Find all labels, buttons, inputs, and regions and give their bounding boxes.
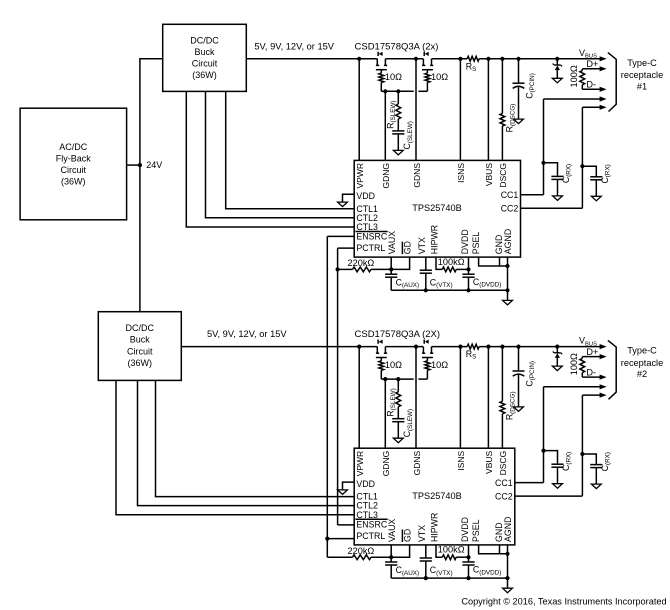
wire CC2 arrow ckt1 bbox=[582, 105, 606, 110]
wire DVDD pin ckt1 bbox=[468, 257, 470, 274]
wire VBUS arrow ckt2 bbox=[600, 344, 607, 349]
capacitor C(AUX) ckt1 bbox=[385, 269, 419, 290]
svg-text:10Ω: 10Ω bbox=[385, 360, 402, 370]
pin label ISNS ckt2 bbox=[456, 450, 466, 470]
wire GD pin ckt1 bbox=[391, 257, 409, 269]
ground main ckt1 bbox=[503, 290, 513, 305]
ground arrow VDD ckt2 bbox=[338, 490, 348, 495]
svg-text:VBUS: VBUS bbox=[484, 450, 494, 473]
svg-text:VAUX: VAUX bbox=[387, 231, 397, 254]
svg-text:Buck: Buck bbox=[130, 335, 151, 345]
resistor RS ckt2 bbox=[466, 344, 479, 361]
svg-text:ISNS: ISNS bbox=[456, 450, 466, 470]
node C(DVDD) ground junction ckt2 bbox=[466, 576, 470, 580]
pin label CTL1 ckt1 bbox=[356, 204, 378, 214]
svg-text:GDNG: GDNG bbox=[381, 451, 391, 477]
capacitor C(PCIN) ckt2 bbox=[513, 347, 536, 407]
wire ENSRC U1 pin stub bbox=[327, 235, 354, 237]
pin label DVDD ckt1 bbox=[460, 229, 470, 254]
capacitor C(DVDD) ckt2 bbox=[462, 562, 501, 578]
svg-text:ENSRC: ENSRC bbox=[356, 232, 387, 242]
pin label CC1 ckt2 bbox=[495, 478, 513, 488]
node AGND strap junction ckt1 bbox=[505, 264, 509, 268]
ground below zener ckt2 bbox=[552, 366, 562, 371]
pin label CC1 ckt1 bbox=[501, 190, 519, 200]
node AGND ground junction ckt1 bbox=[505, 288, 509, 292]
svg-text:GDNS: GDNS bbox=[412, 450, 422, 475]
node PCTRL2 junction bbox=[325, 537, 329, 541]
resistor R(SLEW) ckt1 bbox=[385, 91, 400, 130]
pin label AGND ckt1 bbox=[503, 229, 513, 254]
node VBUS tap ckt1 bbox=[486, 57, 490, 61]
wire 24V rail up to DC/DC buck 1 bbox=[140, 59, 163, 165]
svg-text:CSD17578Q3A (2x): CSD17578Q3A (2x) bbox=[355, 41, 439, 52]
wire VBUS pin ckt2 bbox=[487, 347, 489, 449]
svg-text:DSCG: DSCG bbox=[498, 451, 508, 476]
svg-text:GDNS: GDNS bbox=[412, 163, 422, 188]
wire bottom ground rail ckt1 bbox=[391, 289, 507, 291]
node VAUX junction ckt1 bbox=[389, 267, 393, 271]
transistor Q1 CSD17578Q3A ckt1 bbox=[376, 52, 387, 73]
svg-text:100Ω: 100Ω bbox=[569, 65, 579, 87]
node CC2 RX tap ckt2 bbox=[580, 452, 584, 456]
svg-text:GD: GD bbox=[402, 241, 412, 254]
svg-text:Buck: Buck bbox=[194, 47, 215, 57]
resistor 220k ohm ckt2 bbox=[327, 546, 391, 560]
pin label GD with overline ckt2 bbox=[402, 529, 412, 542]
capacitor C(VTX) ckt1 bbox=[420, 257, 453, 290]
node VBUS tap ckt2 bbox=[486, 345, 490, 349]
wire VPWR pin ckt2 bbox=[358, 347, 360, 449]
label Type-C receptacle #2 ckt2 bbox=[621, 346, 663, 380]
node C(VTX) ground junction ckt2 bbox=[424, 576, 428, 580]
pin label VAUX ckt2 bbox=[387, 519, 397, 542]
pin label CTL2 ckt2 bbox=[356, 501, 378, 511]
pin label DSCG ckt1 bbox=[498, 163, 508, 188]
wire AGND pin ckt1 bbox=[507, 257, 509, 290]
pin label PCTRL ckt2 bbox=[356, 531, 385, 541]
svg-text:DVDD: DVDD bbox=[460, 229, 470, 254]
label 24V bbox=[146, 160, 162, 170]
node GDNG tap ckt2 bbox=[383, 377, 387, 381]
wire PCTRL U2 pin stub bbox=[327, 538, 354, 540]
pin label GDNS ckt1 bbox=[412, 163, 422, 188]
svg-text:D+: D+ bbox=[586, 59, 598, 69]
capacitor C(RX) on CC1 ckt1 bbox=[544, 163, 573, 196]
pin label VBUS ckt2 bbox=[484, 450, 494, 473]
node 220k tap circuit 1 bbox=[336, 267, 340, 271]
svg-text:AGND: AGND bbox=[503, 517, 513, 542]
wire CTL2 from buck 1 to U1 bbox=[206, 91, 355, 217]
wire PSEL to GND strap ckt2 bbox=[479, 545, 508, 554]
pin label VTX ckt1 bbox=[417, 237, 427, 254]
svg-text:Copyright © 2016, Texas Instru: Copyright © 2016, Texas Instruments Inco… bbox=[461, 596, 666, 606]
node 24V junction bbox=[138, 163, 142, 167]
capacitor C(SLEW) ckt1 bbox=[392, 121, 414, 150]
ground below C(PCIN) ckt1 bbox=[514, 119, 524, 124]
capacitor C(RX) on CC2 ckt2 bbox=[582, 452, 611, 484]
svg-text:DC/DC: DC/DC bbox=[126, 323, 155, 333]
wire D- arrow ckt2 bbox=[582, 375, 606, 380]
pin label HIPWR ckt2 bbox=[429, 513, 439, 542]
pin label ENSRC with overline ckt1 bbox=[355, 232, 387, 242]
svg-text:(36W): (36W) bbox=[192, 70, 217, 80]
wire ENSRC U2 pin stub bbox=[338, 524, 355, 526]
svg-text:#2: #2 bbox=[637, 369, 647, 379]
pin label ISNS ckt1 bbox=[456, 163, 466, 183]
svg-text:10Ω: 10Ω bbox=[431, 72, 448, 82]
label D- ckt1 bbox=[586, 80, 596, 90]
pin label DVDD ckt2 bbox=[460, 517, 470, 542]
wire GDNG pin ckt1 bbox=[384, 91, 386, 160]
svg-text:VBUS: VBUS bbox=[484, 163, 494, 186]
svg-text:CC2: CC2 bbox=[501, 204, 519, 214]
resistor 10 ohm gate Q1 ckt1 bbox=[379, 72, 402, 91]
capacitor C(PCIN) ckt1 bbox=[513, 59, 536, 119]
node R_SLEW tap ckt1 bbox=[396, 89, 400, 93]
wire VDD pin ckt1 bbox=[343, 194, 355, 202]
svg-text:Circuit: Circuit bbox=[61, 165, 87, 175]
label CSD17578Q3A (2X) ckt2 bbox=[355, 329, 441, 340]
svg-text:receptacle: receptacle bbox=[621, 358, 663, 368]
node ISNS tap ckt1 bbox=[458, 57, 462, 61]
node DSCG tap ckt1 bbox=[500, 57, 504, 61]
svg-text:5V, 9V, 12V, or 15V: 5V, 9V, 12V, or 15V bbox=[207, 329, 287, 339]
svg-text:CC2: CC2 bbox=[495, 491, 513, 501]
pin label GDNG ckt2 bbox=[381, 451, 391, 477]
node C(PCIN) tap ckt2 bbox=[516, 345, 520, 349]
svg-text:10Ω: 10Ω bbox=[431, 360, 448, 370]
node FET common source ckt2 bbox=[414, 345, 418, 349]
svg-text:PCTRL: PCTRL bbox=[356, 243, 385, 253]
svg-text:DVDD: DVDD bbox=[460, 517, 470, 542]
pin label ENSRC with overline ckt2 bbox=[355, 519, 387, 529]
capacitor C(VTX) ckt2 bbox=[420, 545, 453, 578]
pin label GND ckt1 bbox=[494, 235, 504, 255]
node C(DVDD) ground junction ckt1 bbox=[466, 288, 470, 292]
wire ISNS pin ckt2 bbox=[459, 347, 461, 449]
wire CC2 arrow ckt2 bbox=[582, 393, 606, 398]
op-amp U1 TPS25740B box ckt1 bbox=[354, 160, 520, 257]
resistor 10 ohm gate Q2 ckt1 bbox=[425, 72, 448, 91]
wire CTL3 from buck 1 to U1 bbox=[186, 91, 354, 227]
pin label VAUX ckt1 bbox=[387, 231, 397, 254]
wire gate drive node ckt2 bbox=[381, 378, 427, 380]
label 5V, 9V, 12V, or 15V ckt1 bbox=[254, 41, 334, 51]
wire main power rail ckt2 bbox=[181, 346, 600, 348]
wire CC1 net ckt1 bbox=[521, 99, 544, 195]
svg-text:AGND: AGND bbox=[503, 229, 513, 254]
ground arrow VDD ckt1 bbox=[338, 202, 348, 207]
svg-text:D+: D+ bbox=[586, 347, 598, 357]
transistor Q1 CSD17578Q3A ckt2 bbox=[376, 340, 387, 361]
wire VDD pin ckt2 bbox=[343, 482, 355, 490]
ground below CC1 C(RX) ckt1 bbox=[553, 196, 563, 201]
wire CC1 net ckt2 bbox=[515, 387, 544, 483]
node VAUX junction ckt2 bbox=[389, 555, 393, 559]
pin label PSEL ckt1 bbox=[471, 232, 481, 255]
svg-text:220kΩ: 220kΩ bbox=[348, 258, 375, 268]
svg-text:VTX: VTX bbox=[417, 525, 427, 542]
wire CC2 net ckt1 bbox=[521, 107, 583, 208]
pin label PCTRL ckt1 bbox=[356, 243, 385, 253]
wire CTL1 from buck 2 to U2 bbox=[156, 380, 355, 496]
svg-text:PCTRL: PCTRL bbox=[356, 531, 385, 541]
diode D zener ckt2 bbox=[553, 347, 562, 366]
pin label VDD ckt1 bbox=[356, 191, 375, 201]
svg-text:D-: D- bbox=[586, 367, 596, 377]
DC/DC buck circuit block 1 bbox=[163, 24, 247, 91]
svg-text:VAUX: VAUX bbox=[387, 519, 397, 542]
svg-text:24V: 24V bbox=[146, 160, 162, 170]
svg-text:VPWR: VPWR bbox=[355, 163, 365, 189]
transistor Q2 CSD17578Q3A ckt2 bbox=[422, 340, 433, 361]
label VBUS net ckt2 bbox=[579, 336, 597, 348]
svg-text:Circuit: Circuit bbox=[127, 346, 153, 356]
node CC2 RX tap ckt1 bbox=[580, 164, 584, 168]
pin label CTL1 ckt2 bbox=[356, 492, 378, 502]
wire GDNS pin ckt2 bbox=[415, 347, 417, 449]
pin label GD with overline ckt1 bbox=[402, 241, 412, 254]
resistor RS ckt1 bbox=[466, 56, 479, 73]
wire D+ arrow ckt1 bbox=[582, 66, 606, 71]
svg-text:ENSRC: ENSRC bbox=[356, 519, 387, 529]
wire DVDD pin ckt2 bbox=[468, 545, 470, 562]
svg-text:(36W): (36W) bbox=[61, 177, 86, 187]
wire AGND pin ckt2 bbox=[507, 545, 509, 578]
svg-text:PSEL: PSEL bbox=[471, 232, 481, 255]
wire PCTRL U1 pin stub bbox=[338, 247, 355, 249]
wire bottom ground rail ckt2 bbox=[391, 577, 507, 579]
resistor R(SLEW) ckt2 bbox=[385, 379, 400, 418]
svg-text:VDD: VDD bbox=[356, 479, 375, 489]
label D- ckt2 bbox=[586, 367, 596, 377]
wire VBUS pin ckt1 bbox=[487, 59, 489, 161]
wire GD pin ckt2 bbox=[391, 545, 409, 557]
resistor 100k ohm ckt1 bbox=[436, 257, 469, 272]
svg-text:Fly-Back: Fly-Back bbox=[56, 153, 92, 163]
ground below C(SLEW) ckt1 bbox=[393, 150, 403, 155]
svg-text:VTX: VTX bbox=[417, 237, 427, 254]
pin label GND ckt2 bbox=[494, 522, 504, 542]
pin label CTL2 ckt1 bbox=[356, 213, 378, 223]
wire D+ arrow ckt2 bbox=[582, 354, 606, 359]
label Type-C receptacle #1 ckt1 bbox=[621, 58, 663, 92]
wire net ENSRC1 to PCTRL2 vertical bbox=[326, 236, 328, 557]
wire 24V rail down to DC/DC buck 2 bbox=[139, 165, 141, 312]
node AGND ground junction ckt2 bbox=[505, 576, 509, 580]
pin label HIPWR ckt1 bbox=[429, 225, 439, 254]
pin label DSCG ckt2 bbox=[498, 451, 508, 476]
wire CTL3 from buck 2 to U2 bbox=[116, 380, 354, 514]
wire main power rail ckt1 bbox=[246, 58, 600, 60]
svg-text:CC1: CC1 bbox=[501, 190, 519, 200]
node R_SLEW tap ckt2 bbox=[396, 377, 400, 381]
pin label CC2 ckt2 bbox=[495, 491, 513, 501]
wire 24V from AC/DC output bbox=[127, 164, 140, 166]
AC/DC fly-back converter block bbox=[20, 108, 127, 220]
pin label VPWR ckt1 bbox=[355, 163, 365, 189]
resistor 100 ohm D+ to D- ckt1 bbox=[569, 65, 585, 89]
svg-text:receptacle: receptacle bbox=[621, 70, 663, 80]
capacitor C(DVDD) ckt1 bbox=[462, 274, 501, 290]
node ISNS tap ckt2 bbox=[458, 345, 462, 349]
ground below C(PCIN) ckt2 bbox=[514, 407, 524, 412]
pin label CC2 ckt1 bbox=[501, 204, 519, 214]
svg-text:TPS25740B: TPS25740B bbox=[412, 203, 462, 213]
capacitor C(RX) on CC2 ckt1 bbox=[582, 164, 611, 196]
pin label PSEL ckt2 bbox=[471, 519, 481, 542]
pin label CTL3 ckt2 bbox=[356, 510, 378, 520]
wire CC1 arrow ckt1 bbox=[544, 96, 607, 101]
wire CTL2 from buck 2 to U2 bbox=[138, 380, 355, 505]
op-amp U2 TPS25740B box ckt2 bbox=[354, 448, 515, 545]
node AGND strap junction ckt2 bbox=[505, 552, 509, 556]
resistor 10 ohm gate Q1 ckt2 bbox=[379, 360, 402, 379]
svg-text:#1: #1 bbox=[637, 81, 647, 91]
resistor 10 ohm gate Q2 ckt2 bbox=[425, 360, 448, 379]
wire GDNG pin ckt2 bbox=[384, 379, 386, 448]
svg-text:HIPWR: HIPWR bbox=[429, 225, 439, 254]
wire GDNS pin ckt1 bbox=[415, 59, 417, 161]
node GDNG tap ckt1 bbox=[383, 89, 387, 93]
node C(PCIN) tap ckt1 bbox=[516, 57, 520, 61]
label D+ ckt1 bbox=[586, 59, 598, 69]
svg-text:Type-C: Type-C bbox=[627, 346, 657, 356]
capacitor C(SLEW) ckt2 bbox=[392, 409, 414, 438]
label D+ ckt2 bbox=[586, 347, 598, 357]
node DVDD junction ckt2 bbox=[466, 555, 470, 559]
DC/DC buck circuit block 2 bbox=[98, 312, 181, 381]
label VBUS net ckt1 bbox=[579, 48, 597, 60]
node CC1 RX tap ckt1 bbox=[541, 161, 545, 165]
node CC1 RX tap ckt2 bbox=[541, 449, 545, 453]
node zener tap ckt2 bbox=[555, 345, 559, 349]
wire PSEL to GND strap ckt1 bbox=[479, 257, 508, 266]
resistor R(DSCG) ckt2 bbox=[500, 347, 516, 449]
copyright text bbox=[461, 596, 666, 606]
pin label AGND ckt2 bbox=[503, 517, 513, 542]
pin label GDNG ckt1 bbox=[381, 163, 391, 189]
svg-text:(36W): (36W) bbox=[128, 358, 153, 368]
svg-text:DC/DC: DC/DC bbox=[190, 35, 219, 45]
svg-text:TPS25740B: TPS25740B bbox=[412, 491, 462, 501]
svg-text:CSD17578Q3A (2X): CSD17578Q3A (2X) bbox=[355, 329, 441, 340]
svg-text:CC1: CC1 bbox=[495, 478, 513, 488]
wire gate drive node ckt1 bbox=[381, 90, 427, 92]
wire net PCTRL1 to ENSRC2 vertical bbox=[337, 248, 339, 525]
svg-text:ISNS: ISNS bbox=[456, 163, 466, 183]
node VPWR tap ckt1 bbox=[357, 57, 361, 61]
pin label VDD ckt2 bbox=[356, 479, 375, 489]
svg-text:GDNG: GDNG bbox=[381, 163, 391, 189]
wire VPWR pin ckt1 bbox=[358, 59, 360, 161]
svg-text:GD: GD bbox=[402, 529, 412, 542]
svg-text:PSEL: PSEL bbox=[471, 519, 481, 542]
svg-text:Circuit: Circuit bbox=[192, 59, 218, 69]
svg-text:VPWR: VPWR bbox=[355, 451, 365, 477]
resistor 220k ohm ckt1 bbox=[338, 258, 392, 272]
wire D- arrow ckt1 bbox=[582, 87, 606, 92]
wire CTL1 from buck 1 to U1 bbox=[226, 91, 355, 208]
wire CC1 arrow ckt2 bbox=[544, 384, 607, 389]
wire ISNS pin ckt1 bbox=[459, 59, 461, 161]
svg-text:HIPWR: HIPWR bbox=[429, 513, 439, 542]
wire VBUS arrow ckt1 bbox=[600, 56, 607, 61]
svg-text:5V, 9V, 12V, or 15V: 5V, 9V, 12V, or 15V bbox=[254, 41, 334, 51]
pin label VPWR ckt2 bbox=[355, 451, 365, 477]
pin label GDNS ckt2 bbox=[412, 450, 422, 475]
svg-text:DSCG: DSCG bbox=[498, 163, 508, 188]
pin label CTL3 ckt1 bbox=[356, 222, 378, 232]
wire VAUX pin ckt2 bbox=[390, 545, 392, 557]
svg-text:VDD: VDD bbox=[356, 191, 375, 201]
label CSD17578Q3A (2x) ckt1 bbox=[355, 41, 439, 52]
Type-C receptacle bracket ckt2 bbox=[608, 340, 616, 399]
capacitor C(RX) on CC1 ckt2 bbox=[544, 451, 573, 484]
resistor R(DSCG) ckt1 bbox=[500, 59, 516, 161]
diode D zener ckt1 bbox=[553, 59, 562, 78]
ground below CC2 C(RX) ckt1 bbox=[591, 196, 601, 201]
resistor 100k ohm ckt2 bbox=[436, 545, 469, 560]
ground below zener ckt1 bbox=[552, 78, 562, 83]
svg-text:100kΩ: 100kΩ bbox=[438, 545, 465, 555]
ground below C(SLEW) ckt2 bbox=[393, 438, 403, 443]
transistor Q2 CSD17578Q3A ckt1 bbox=[422, 52, 433, 73]
node DSCG tap ckt2 bbox=[500, 345, 504, 349]
svg-text:D-: D- bbox=[586, 80, 596, 90]
Type-C receptacle bracket ckt1 bbox=[608, 53, 616, 112]
ground main ckt2 bbox=[503, 578, 513, 593]
ground below CC1 C(RX) ckt2 bbox=[553, 484, 563, 489]
node FET common source ckt1 bbox=[414, 57, 418, 61]
svg-text:220kΩ: 220kΩ bbox=[348, 546, 375, 556]
resistor 100 ohm D+ to D- ckt2 bbox=[569, 353, 585, 377]
node C(VTX) ground junction ckt1 bbox=[424, 288, 428, 292]
wire CC2 net ckt2 bbox=[515, 395, 583, 496]
ground below CC2 C(RX) ckt2 bbox=[591, 484, 601, 489]
label 5V, 9V, 12V, or 15V ckt2 bbox=[207, 329, 287, 339]
wire VAUX pin ckt1 bbox=[390, 257, 392, 269]
node zener tap ckt1 bbox=[555, 57, 559, 61]
svg-text:Type-C: Type-C bbox=[627, 58, 657, 68]
pin label VTX ckt2 bbox=[417, 525, 427, 542]
pin label VBUS ckt1 bbox=[484, 163, 494, 186]
svg-text:100kΩ: 100kΩ bbox=[438, 257, 465, 267]
svg-text:10Ω: 10Ω bbox=[385, 72, 402, 82]
svg-text:100Ω: 100Ω bbox=[569, 353, 579, 375]
svg-text:AC/DC: AC/DC bbox=[59, 142, 88, 152]
node VPWR tap ckt2 bbox=[357, 345, 361, 349]
node DVDD junction ckt1 bbox=[466, 267, 470, 271]
capacitor C(AUX) ckt2 bbox=[385, 557, 419, 578]
